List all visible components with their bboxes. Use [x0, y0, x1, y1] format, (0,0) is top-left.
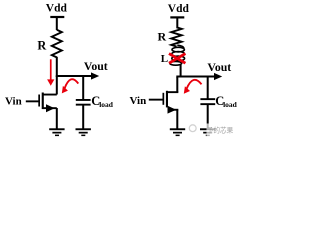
- inductor L coil: [170, 45, 185, 65]
- wire capacitor to ground (left): [82, 105, 84, 129]
- svg-text:Vout: Vout: [84, 59, 108, 73]
- ground under transistor (right): [170, 128, 185, 136]
- svg-text:load: load: [223, 100, 238, 109]
- wire Vdd to resistor R (right): [176, 17, 178, 27]
- output node wire to Vout arrow (left): [56, 75, 92, 77]
- svg-text:予的芯果: 予的芯果: [207, 126, 234, 135]
- svg-text:R: R: [158, 30, 167, 44]
- C_load label (right): [215, 94, 237, 109]
- svg-text:Vin: Vin: [130, 95, 147, 107]
- red current arrow (straight, down) left: [47, 59, 54, 86]
- transistor M2 source wire with arrow (right): [168, 106, 179, 114]
- ground under capacitor (left): [76, 128, 91, 136]
- capacitor C_load plates (left): [76, 99, 91, 106]
- wire capacitor to ground (right): [207, 105, 209, 129]
- svg-text:Vdd: Vdd: [168, 3, 190, 15]
- transistor M1 gate bar (left): [38, 95, 40, 107]
- ground under capacitor (right): [200, 128, 215, 136]
- transistor M1 channel bar (left): [42, 93, 44, 110]
- transistor M1 drain wire (left): [44, 94, 57, 96]
- Vdd terminal bar (left): [50, 16, 64, 18]
- transistor M1 source wire with arrow (left): [44, 104, 57, 112]
- Vout arrowhead (left): [91, 72, 99, 79]
- watermark logo circle: [189, 125, 196, 132]
- wire node to capacitor C_load (left): [82, 76, 84, 99]
- red curved arrow (left): [62, 79, 79, 93]
- svg-text:Vout: Vout: [207, 60, 231, 74]
- left circuit: [5, 3, 114, 137]
- wire resistor to output node (left): [56, 57, 58, 77]
- svg-text:R: R: [37, 38, 46, 52]
- ground under transistor (left): [49, 128, 64, 136]
- wire source to ground (left): [56, 108, 58, 129]
- wire source to ground (right): [176, 110, 178, 130]
- wire drain up to node (left): [56, 76, 58, 95]
- wire node to capacitor C_load (right): [207, 77, 209, 99]
- watermark background fade: [207, 124, 241, 138]
- gate wire (right): [149, 99, 163, 101]
- resistor R2 zigzag (right): [171, 27, 181, 46]
- Vout arrowhead (right): [214, 73, 222, 80]
- wire drain up to node (right): [176, 77, 178, 93]
- resistor R1 zigzag (left): [52, 30, 62, 58]
- right circuit: [130, 3, 241, 137]
- svg-text:Vdd: Vdd: [46, 3, 68, 15]
- wire Vdd to resistor R (left): [56, 17, 58, 30]
- C_load label (left): [91, 94, 113, 109]
- Vdd terminal bar (right): [170, 16, 184, 18]
- svg-text:load: load: [99, 100, 114, 109]
- svg-text:Vin: Vin: [5, 96, 22, 108]
- wire inductor to output node (right): [180, 65, 182, 78]
- output node wire to Vout arrow (right): [176, 76, 214, 78]
- transistor M2 drain wire (right): [168, 91, 179, 93]
- gate wire (left): [26, 100, 39, 102]
- red curved arrow (right): [184, 80, 202, 94]
- transistor M2 gate bar (right): [163, 93, 165, 105]
- red X over inductor: [169, 54, 185, 64]
- svg-text:L: L: [161, 53, 168, 65]
- capacitor C_load plates (right): [200, 98, 215, 105]
- transistor M2 channel bar (right): [166, 91, 168, 108]
